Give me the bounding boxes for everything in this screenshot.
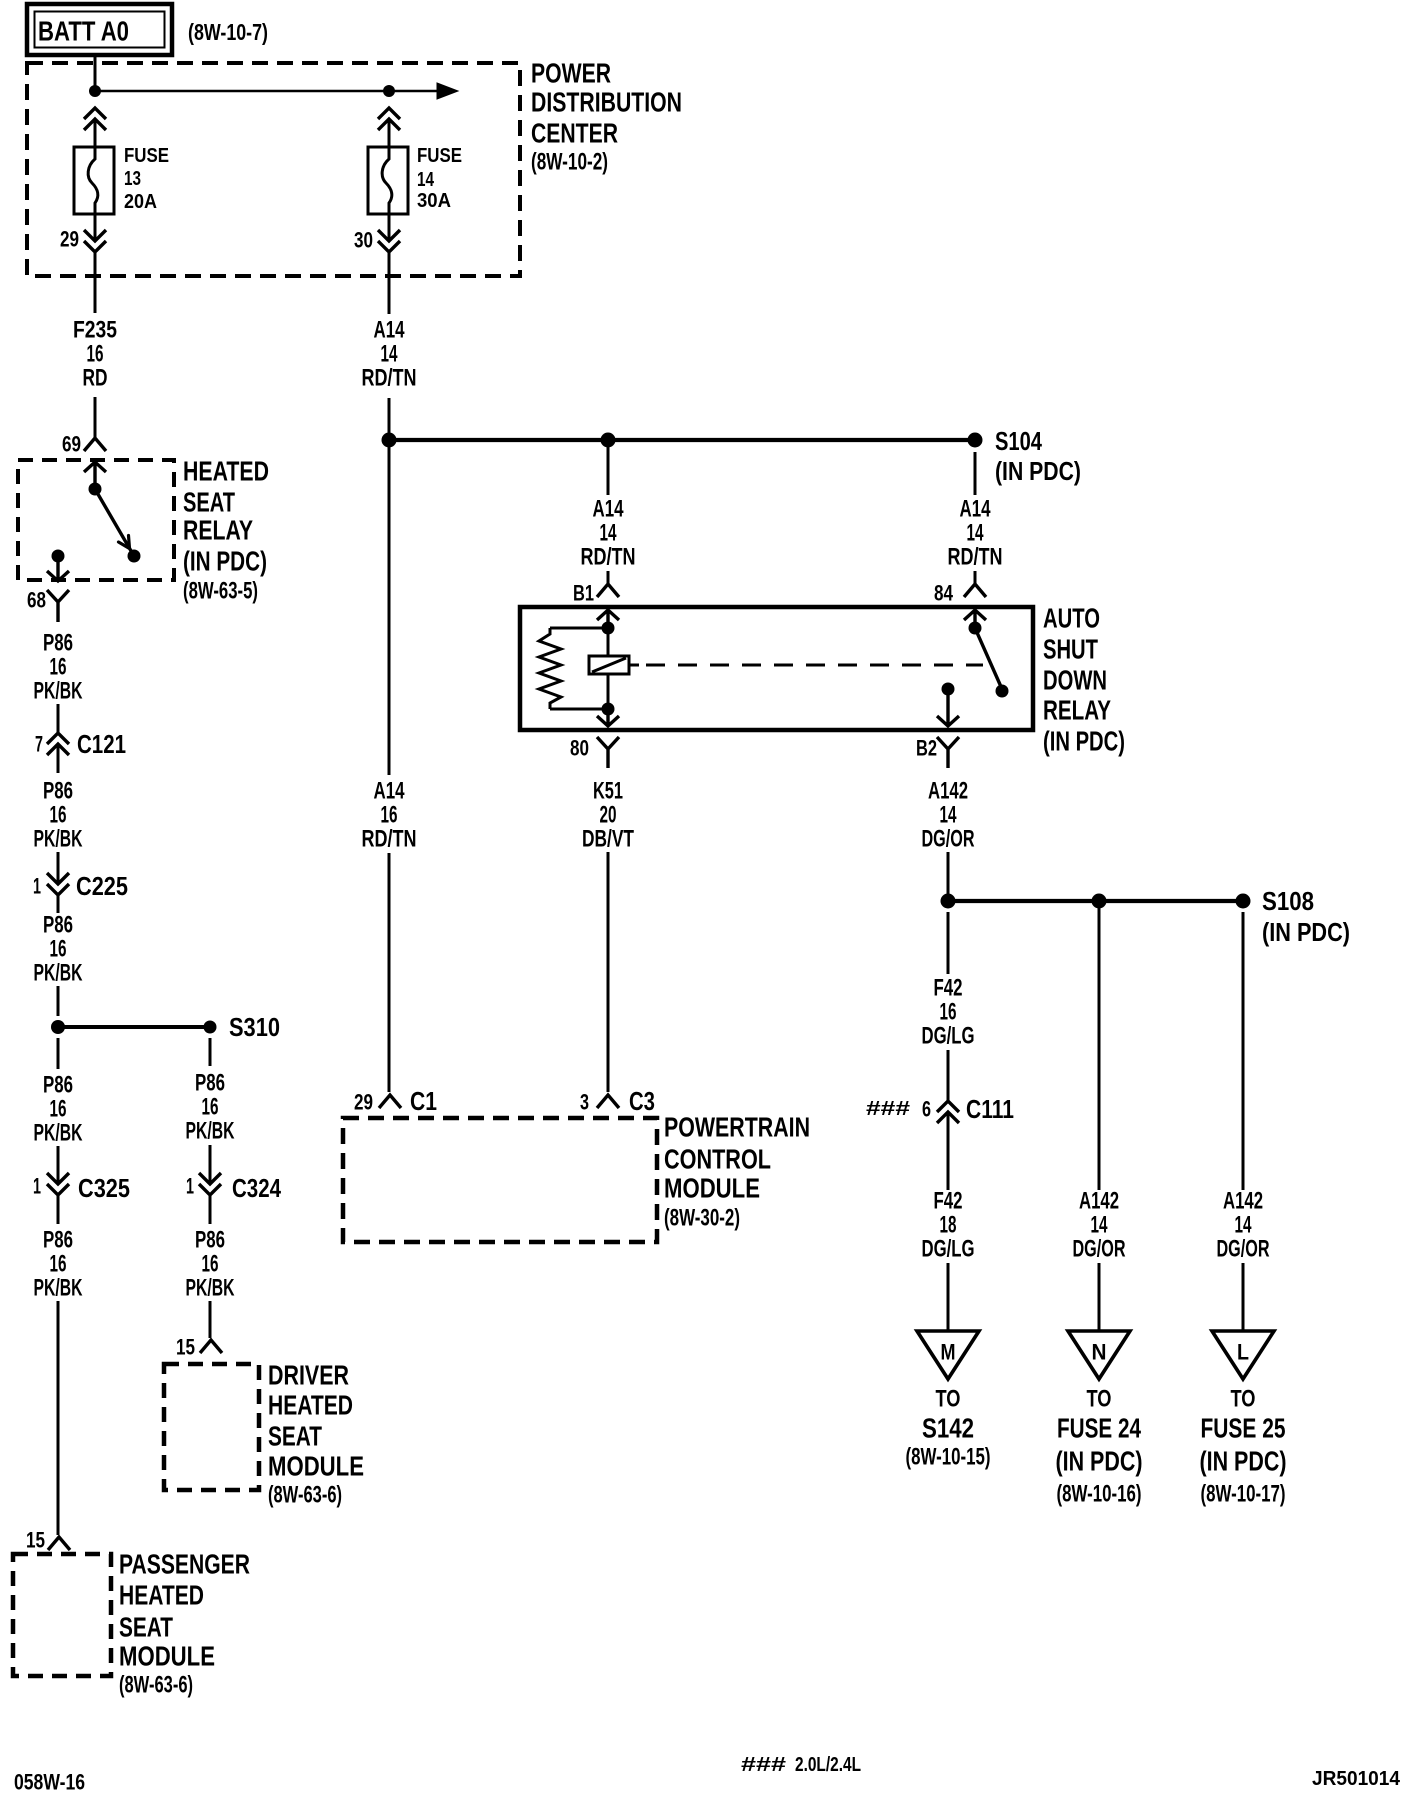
svg-text:K51: K51 [593, 778, 623, 805]
svg-text:SHUT: SHUT [1043, 634, 1098, 665]
powertrain control module box (dashed) [343, 1118, 657, 1242]
svg-text:PK/BK: PK/BK [186, 1118, 235, 1145]
svg-text:DG/LG: DG/LG [922, 1023, 975, 1050]
svg-text:MODULE: MODULE [664, 1173, 760, 1204]
svg-text:3: 3 [580, 1090, 589, 1115]
svg-text:16: 16 [50, 1251, 67, 1278]
svg-text:DG/OR: DG/OR [1217, 1236, 1270, 1263]
svg-text:(IN PDC): (IN PDC) [995, 456, 1081, 486]
wire to driver module [209, 1301, 212, 1338]
svg-text:29: 29 [354, 1090, 373, 1115]
svg-text:A14: A14 [960, 496, 991, 523]
svg-text:TO: TO [1231, 1386, 1256, 1413]
svg-text:C3: C3 [629, 1086, 655, 1116]
heated seat relay box (dashed) [18, 460, 174, 580]
svg-text:16: 16 [87, 341, 104, 368]
svg-text:(8W-10-17): (8W-10-17) [1201, 1481, 1286, 1508]
fuse 13 top terminal [84, 108, 106, 130]
svg-text:C111: C111 [966, 1094, 1014, 1124]
svg-text:(8W-10-2): (8W-10-2) [531, 149, 608, 176]
svg-text:14: 14 [1235, 1212, 1252, 1239]
svg-text:2.0L/2.4L: 2.0L/2.4L [795, 1754, 861, 1776]
svg-text:(IN PDC): (IN PDC) [1056, 1446, 1143, 1477]
svg-text:15: 15 [26, 1528, 45, 1553]
long wire to passenger module [57, 1301, 60, 1535]
svg-text:DRIVER: DRIVER [268, 1360, 349, 1391]
svg-text:S104: S104 [995, 426, 1042, 456]
svg-text:S108: S108 [1262, 886, 1314, 916]
relay pin 80 male down [597, 709, 619, 726]
wire S108 to fuse 25 [1242, 912, 1245, 1190]
svg-text:20: 20 [600, 802, 617, 829]
wire to C111 [947, 1050, 950, 1101]
svg-text:29: 29 [60, 227, 79, 252]
svg-text:6: 6 [922, 1097, 931, 1122]
relay pivot node [89, 483, 102, 496]
svg-text:POWERTRAIN: POWERTRAIN [664, 1112, 810, 1143]
svg-text:HEATED: HEATED [268, 1390, 353, 1421]
svg-text:(8W-30-2): (8W-30-2) [664, 1205, 740, 1232]
svg-text:(8W-10-16): (8W-10-16) [1057, 1481, 1142, 1508]
svg-text:TO: TO [936, 1386, 961, 1413]
relay resistor [539, 628, 561, 709]
svg-text:C325: C325 [78, 1173, 130, 1203]
svg-text:F42: F42 [934, 975, 963, 1002]
svg-text:MODULE: MODULE [268, 1451, 364, 1482]
svg-text:CONTROL: CONTROL [664, 1144, 771, 1175]
off-page connector M [917, 1331, 979, 1379]
node splice left [941, 894, 956, 909]
svg-text:AUTO: AUTO [1043, 603, 1100, 634]
wire fuse14 to bus [388, 398, 391, 440]
svg-text:16: 16 [50, 936, 67, 963]
wire to C324 [209, 1145, 212, 1184]
wire fuse 14 down [388, 252, 391, 314]
svg-text:16: 16 [50, 654, 67, 681]
relay arm end node [128, 550, 141, 563]
svg-text:P86: P86 [43, 912, 73, 939]
svg-text:FUSE: FUSE [417, 145, 462, 167]
svg-text:FUSE: FUSE [124, 145, 169, 167]
relay switch arm end node [996, 685, 1009, 698]
svg-text:80: 80 [570, 736, 589, 761]
svg-text:20A: 20A [124, 191, 157, 213]
relay switch arm [95, 489, 134, 556]
svg-text:M: M [941, 1340, 956, 1365]
relay coil bottom wire [607, 674, 610, 709]
wire to relay pin B1 [607, 571, 610, 584]
svg-text:(8W-63-5): (8W-63-5) [183, 578, 258, 605]
svg-text:DB/VT: DB/VT [582, 826, 634, 853]
wire bus down middle [607, 440, 610, 495]
relay contact pin 69 male [84, 462, 106, 489]
wire to off-page N [1098, 1263, 1101, 1331]
svg-text:RELAY: RELAY [1043, 695, 1111, 726]
svg-text:(8W-63-6): (8W-63-6) [268, 1482, 342, 1509]
arrowhead [437, 83, 458, 99]
svg-text:CENTER: CENTER [531, 118, 618, 149]
svg-text:RELAY: RELAY [183, 515, 253, 546]
svg-text:TO: TO [1087, 1386, 1112, 1413]
off-page connector L [1212, 1331, 1274, 1379]
battery feed box BATT A0 [27, 4, 172, 55]
relay resistor bottom lead [550, 708, 608, 711]
svg-text:(IN PDC): (IN PDC) [183, 546, 267, 577]
svg-text:PK/BK: PK/BK [186, 1275, 235, 1302]
svg-text:7: 7 [35, 732, 43, 757]
svg-text:RD: RD [83, 365, 108, 392]
svg-text:SEAT: SEAT [268, 1421, 322, 1452]
wire to relay pin 69 [94, 397, 97, 438]
splice node S310 left [51, 1020, 65, 1034]
wire to C325 [57, 1146, 60, 1184]
node bus middle [601, 433, 616, 448]
svg-text:RD/TN: RD/TN [362, 826, 417, 853]
svg-text:DISTRIBUTION: DISTRIBUTION [531, 87, 682, 118]
svg-text:B2: B2 [916, 736, 937, 761]
svg-text:(8W-63-6): (8W-63-6) [119, 1672, 193, 1699]
svg-text:A14: A14 [374, 778, 405, 805]
svg-text:N: N [1092, 1340, 1107, 1365]
relay pin B2 male down [937, 689, 959, 726]
svg-text:RD/TN: RD/TN [362, 365, 417, 392]
wire to splice S310 [57, 986, 60, 1016]
auto shut down relay box [520, 607, 1033, 730]
svg-text:RD/TN: RD/TN [581, 544, 636, 571]
passenger heated seat module box (dashed) [13, 1554, 111, 1676]
svg-text:14: 14 [417, 169, 435, 191]
svg-text:F42: F42 [934, 1188, 963, 1215]
svg-text:(IN PDC): (IN PDC) [1043, 726, 1125, 757]
splice node S310 [204, 1021, 217, 1034]
relay control dashed line [629, 664, 639, 667]
svg-text:BATT A0: BATT A0 [38, 16, 129, 47]
svg-text:###: ### [741, 1754, 786, 1776]
svg-text:C121: C121 [77, 729, 126, 759]
power distribution center box (dashed) [27, 63, 520, 276]
svg-text:058W-16: 058W-16 [14, 1770, 85, 1795]
svg-text:PK/BK: PK/BK [34, 1120, 83, 1147]
svg-text:(IN PDC): (IN PDC) [1262, 917, 1350, 947]
svg-text:13: 13 [124, 168, 141, 190]
wire splice down [947, 912, 950, 974]
svg-text:SEAT: SEAT [183, 487, 235, 518]
svg-text:P86: P86 [43, 778, 73, 805]
svg-text:(IN PDC): (IN PDC) [1200, 1446, 1287, 1477]
bus wire to S104 [389, 438, 975, 442]
wire bus to fuse 14 with arrow [95, 90, 437, 93]
long wire bus node to PCM C1 [388, 440, 391, 775]
node junction top-left [89, 85, 101, 97]
node splice middle [1092, 894, 1107, 909]
svg-text:A142: A142 [1223, 1188, 1263, 1215]
svg-text:1: 1 [33, 1174, 41, 1199]
svg-text:14: 14 [967, 520, 984, 547]
svg-text:15: 15 [176, 1335, 195, 1360]
svg-text:14: 14 [940, 802, 957, 829]
svg-text:C1: C1 [410, 1086, 437, 1116]
relay pin 68 male down [47, 556, 69, 581]
wire to C121 [57, 704, 60, 733]
svg-text:C225: C225 [76, 871, 128, 901]
svg-text:A14: A14 [593, 496, 624, 523]
fuse 14 bottom terminal [388, 214, 391, 241]
relay pin B2 node [942, 683, 955, 696]
svg-text:RD/TN: RD/TN [948, 544, 1003, 571]
node bus left [382, 433, 397, 448]
svg-text:P86: P86 [43, 1072, 73, 1099]
svg-text:16: 16 [50, 1096, 67, 1123]
svg-text:P86: P86 [43, 630, 73, 657]
wire fuse 13 down [94, 252, 97, 313]
fuse F14 [368, 147, 408, 214]
wire to off-page L [1242, 1263, 1245, 1331]
svg-text:HEATED: HEATED [119, 1580, 204, 1611]
node splice S104 [968, 433, 983, 448]
splice bus to S108 [948, 899, 1243, 903]
svg-text:16: 16 [50, 802, 67, 829]
svg-text:SEAT: SEAT [119, 1612, 173, 1643]
svg-text:(8W-10-7): (8W-10-7) [188, 19, 268, 45]
svg-text:A142: A142 [1079, 1188, 1119, 1215]
svg-text:DOWN: DOWN [1043, 665, 1107, 696]
svg-text:A142: A142 [928, 778, 968, 805]
svg-text:DG/OR: DG/OR [1073, 1236, 1126, 1263]
wire to relay pin 84 [974, 571, 977, 584]
svg-text:18: 18 [940, 1212, 957, 1239]
svg-text:HEATED: HEATED [183, 456, 269, 487]
svg-text:###: ### [866, 1098, 910, 1120]
svg-text:FUSE 24: FUSE 24 [1057, 1413, 1141, 1444]
driver heated seat module box (dashed) [164, 1364, 259, 1490]
wire B2 down to splice [947, 852, 950, 901]
wire below splice right [209, 1038, 212, 1066]
svg-text:DG/LG: DG/LG [922, 1236, 975, 1263]
relay coil wire [607, 628, 610, 656]
svg-text:16: 16 [202, 1251, 219, 1278]
relay pin B1 male up [597, 610, 619, 628]
svg-text:PASSENGER: PASSENGER [119, 1549, 250, 1580]
svg-text:MODULE: MODULE [119, 1641, 215, 1672]
svg-text:30: 30 [354, 228, 373, 253]
relay switch arm [975, 628, 1002, 689]
wire splice to fuse 24 [1098, 901, 1101, 1190]
fuse F13 [74, 147, 114, 214]
wire to off-page M [947, 1263, 950, 1331]
svg-text:P86: P86 [43, 1227, 73, 1254]
svg-text:PK/BK: PK/BK [34, 678, 83, 705]
svg-text:16: 16 [202, 1094, 219, 1121]
svg-text:1: 1 [33, 874, 41, 899]
svg-text:PK/BK: PK/BK [34, 1275, 83, 1302]
fuse 13 bottom terminal [94, 214, 97, 241]
svg-text:A14: A14 [374, 317, 405, 344]
relay coil [589, 656, 629, 674]
svg-text:B1: B1 [573, 581, 594, 606]
svg-text:C324: C324 [232, 1173, 281, 1203]
svg-text:F235: F235 [73, 317, 117, 344]
svg-text:PK/BK: PK/BK [34, 960, 83, 987]
node splice S108 [1236, 894, 1251, 909]
wire battery to node [94, 55, 97, 91]
wire below splice left [57, 1038, 60, 1069]
relay switch pivot node [969, 622, 982, 635]
off-page connector N [1068, 1331, 1130, 1379]
relay resistor top lead [550, 627, 608, 630]
wire to C225 [57, 852, 60, 884]
wire K51 to PCM C3 [607, 852, 610, 1092]
svg-text:P86: P86 [195, 1070, 225, 1097]
svg-text:FUSE 25: FUSE 25 [1201, 1413, 1286, 1444]
relay contact node pin 68 [52, 550, 65, 563]
relay coil bottom node [602, 703, 615, 716]
relay coil top node [602, 622, 615, 635]
svg-text:1: 1 [186, 1174, 194, 1199]
wire splice bus [58, 1025, 210, 1029]
svg-text:POWER: POWER [531, 58, 611, 89]
svg-text:L: L [1237, 1340, 1249, 1365]
svg-text:14: 14 [1091, 1212, 1108, 1239]
fuse 14 top terminal [378, 108, 400, 130]
svg-text:DG/OR: DG/OR [922, 826, 975, 853]
relay pin 84 male up [964, 610, 986, 628]
svg-text:14: 14 [600, 520, 617, 547]
svg-text:68: 68 [27, 588, 46, 613]
svg-text:JR501014: JR501014 [1312, 1768, 1401, 1790]
svg-text:30A: 30A [417, 190, 451, 212]
node above fuse 14 [383, 85, 395, 97]
svg-text:P86: P86 [195, 1227, 225, 1254]
wire S104 down [974, 452, 977, 495]
svg-text:16: 16 [940, 999, 957, 1026]
svg-text:S310: S310 [229, 1012, 280, 1042]
svg-text:S142: S142 [922, 1413, 974, 1444]
svg-text:(8W-10-15): (8W-10-15) [906, 1444, 991, 1471]
svg-text:69: 69 [62, 432, 81, 457]
svg-text:14: 14 [381, 341, 398, 368]
svg-text:PK/BK: PK/BK [34, 826, 83, 853]
svg-text:16: 16 [381, 802, 398, 829]
svg-text:84: 84 [934, 581, 954, 606]
